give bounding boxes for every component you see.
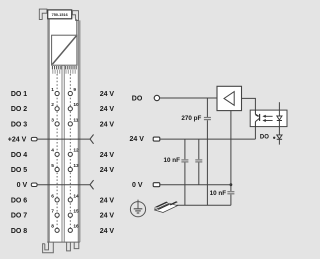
contact comb hatch: [52, 68, 77, 72]
0V feed terminal: [31, 183, 90, 187]
marking box with diagonal: [52, 35, 77, 65]
svg-text:6: 6: [51, 193, 54, 199]
svg-text:5: 5: [51, 163, 54, 169]
light arrows: [262, 115, 272, 122]
svg-text:24 V: 24 V: [100, 228, 115, 235]
0V wire: [160, 184, 231, 186]
svg-text:0 V: 0 V: [132, 182, 143, 189]
junction 0V: [230, 183, 233, 186]
+24V jumper contact arc: [90, 135, 93, 144]
svg-text:4: 4: [51, 148, 54, 154]
svg-text:2: 2: [51, 102, 54, 108]
svg-text:24 V: 24 V: [100, 167, 115, 174]
svg-text:DO 5: DO 5: [11, 167, 27, 174]
svg-text:7: 7: [51, 208, 54, 214]
phototransistor: [255, 110, 259, 127]
0V terminal: [153, 183, 160, 187]
optocoupler U2 box: [250, 110, 287, 127]
svg-text:24 V: 24 V: [100, 152, 115, 159]
svg-text:3: 3: [51, 117, 54, 123]
+24V feed terminal: [31, 137, 90, 141]
module right latch: [72, 11, 78, 21]
svg-text:1: 1: [51, 87, 54, 93]
DO wire: [160, 97, 217, 99]
DIN rail foot left: [43, 242, 54, 253]
svg-text:24 V: 24 V: [100, 106, 115, 113]
svg-text:270 pF: 270 pF: [181, 115, 201, 122]
LED net line: [278, 102, 280, 135]
shield clamp symbol: [155, 201, 178, 212]
driver triangle: [224, 92, 234, 106]
svg-text:+24 V: +24 V: [8, 137, 27, 144]
foot tab middle: [67, 242, 71, 251]
svg-text:DO 4: DO 4: [11, 152, 27, 159]
module body face: [47, 19, 80, 243]
foot tab right: [74, 242, 79, 249]
status LED dot: [273, 137, 275, 139]
svg-text:8: 8: [51, 224, 54, 230]
clamp circles col 2: [68, 91, 72, 95]
24V labels right: [100, 91, 115, 235]
functional earth: [130, 200, 145, 217]
0V jumper contact arc: [90, 180, 93, 189]
svg-text:DO 2: DO 2: [11, 106, 27, 113]
svg-text:15: 15: [73, 208, 79, 214]
svg-text:10 nF: 10 nF: [210, 190, 227, 197]
status LED: [277, 135, 282, 145]
svg-text:DO 6: DO 6: [11, 197, 27, 204]
driver U1 box: [217, 86, 242, 110]
svg-text:DO 1: DO 1: [11, 91, 27, 98]
terminal rail dashed right: [69, 74, 71, 233]
svg-text:0 V: 0 V: [17, 182, 28, 189]
24V wire: [160, 138, 256, 140]
svg-text:DO 8: DO 8: [11, 228, 27, 235]
svg-text:DO 7: DO 7: [11, 213, 27, 220]
opto LED: [277, 116, 282, 121]
capacitor C3 plates: [195, 160, 202, 162]
capacitor C4 plates: [227, 192, 234, 194]
row labels left: [8, 91, 28, 235]
module label box 750-1516: [48, 10, 72, 19]
DO terminal circle: [154, 95, 159, 100]
centre divider: [62, 65, 64, 242]
capacitor C2 10nF line: [184, 139, 186, 205]
svg-text:24 V: 24 V: [100, 91, 115, 98]
svg-text:DO: DO: [132, 95, 143, 102]
svg-text:24 V: 24 V: [100, 197, 115, 204]
svg-text:DO: DO: [260, 135, 269, 141]
svg-text:13: 13: [73, 163, 79, 169]
24V terminal: [153, 137, 160, 141]
svg-text:14: 14: [73, 193, 79, 199]
emitter wire up: [254, 127, 256, 140]
terminal rail dashed left: [56, 74, 58, 233]
svg-text:10: 10: [73, 102, 79, 108]
shield rail wire: [177, 204, 231, 206]
capacitor C1 270pF line: [206, 98, 208, 205]
svg-text:24 V: 24 V: [100, 121, 115, 128]
svg-text:11: 11: [73, 117, 78, 123]
svg-text:DO 3: DO 3: [11, 121, 27, 128]
terminal numbers and clamp circles: [51, 87, 79, 230]
driver common wire down: [230, 111, 232, 206]
svg-text:12: 12: [73, 148, 79, 154]
svg-text:24 V: 24 V: [129, 136, 144, 143]
capacitor C2 plates: [181, 160, 188, 162]
driver output wire to opto: [242, 98, 256, 110]
module left latch: [39, 9, 47, 19]
svg-text:16: 16: [73, 224, 79, 230]
capacitor C3 10nF line: [198, 139, 200, 185]
clamp circles col 1: [55, 91, 59, 95]
svg-text:9: 9: [73, 87, 76, 93]
svg-text:10 nF: 10 nF: [164, 157, 181, 164]
capacitor C1 plates: [204, 118, 211, 120]
svg-text:750-1516: 750-1516: [52, 13, 68, 17]
svg-text:24 V: 24 V: [100, 213, 115, 220]
